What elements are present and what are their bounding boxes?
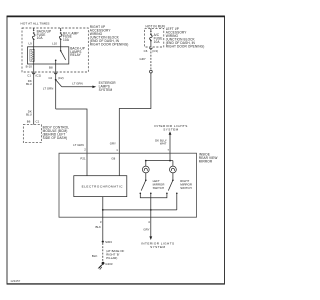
svg-text:C6: C6	[144, 49, 148, 53]
body control module BCM (dashed)	[23, 125, 69, 143]
switch right mirror switch	[166, 179, 192, 194]
svg-text:G8: G8	[111, 156, 115, 160]
svg-text:SWITCH: SWITCH	[180, 186, 192, 190]
lamp right mirror lamp	[170, 161, 177, 180]
svg-text:4: 4	[148, 220, 150, 224]
svg-text:GRY: GRY	[143, 228, 149, 232]
node splice S303	[102, 241, 104, 243]
wire GRY to interior lights system	[141, 217, 175, 249]
svg-text:C1: C1	[36, 120, 40, 124]
svg-text:L10: L10	[52, 41, 57, 45]
svg-text:ELECTROCHROMATIC: ELECTROCHROMATIC	[82, 184, 124, 188]
svg-text:SYSTEM: SYSTEM	[99, 88, 113, 92]
svg-text:HOT AT ALL TIMES: HOT AT ALL TIMES	[21, 22, 50, 26]
inside rear view mirror box	[59, 153, 197, 217]
svg-text:BLU: BLU	[26, 113, 32, 117]
switch left mirror switch	[140, 179, 165, 194]
wire to interior lights output	[150, 193, 152, 217]
svg-text:SIDE OF DASH): SIDE OF DASH)	[43, 136, 68, 140]
wire BLK dashed to ground	[92, 243, 125, 262]
svg-text:10A: 10A	[154, 40, 161, 44]
svg-text:BLK: BLK	[92, 254, 98, 258]
wire DK BLU/WHT to interior lights system	[154, 124, 188, 153]
lamp left mirror lamp	[142, 161, 149, 180]
wire right switch to ground bus	[176, 193, 178, 210]
svg-text:HOT IN RUN: HOT IN RUN	[146, 24, 166, 28]
svg-text:GRY: GRY	[140, 57, 146, 61]
connector C3 under block	[150, 48, 153, 49]
svg-text:LT GRN: LT GRN	[73, 143, 83, 147]
svg-text:WHT: WHT	[160, 141, 167, 145]
svg-text:(C3): (C3)	[152, 49, 158, 53]
svg-text:10A: 10A	[63, 38, 70, 42]
fuse B/U LAMP FUSE 10A	[59, 28, 78, 47]
svg-text:LT GRN: LT GRN	[43, 87, 53, 91]
wire ground bus	[103, 209, 177, 211]
relay coil	[30, 47, 35, 72]
svg-text:BLK: BLK	[95, 225, 101, 229]
svg-text:7: 7	[167, 148, 169, 152]
fuse BACK/UP FUSE 10A	[32, 28, 51, 47]
left I/P accessory wiring junction block (dashed)	[145, 28, 164, 47]
svg-text:S303: S303	[105, 240, 112, 244]
svg-text:1: 1	[116, 148, 118, 152]
svg-text:B-10: B-10	[26, 64, 33, 68]
svg-text:L9: L9	[29, 41, 33, 45]
svg-text:(C2): (C2)	[58, 76, 64, 80]
fuse A/C FUSE 10A	[150, 28, 163, 47]
wire GRY from A/C fuse	[110, 48, 153, 175]
node splice to exterior lamps	[55, 79, 57, 81]
ground G303	[98, 262, 113, 270]
wire branch LT GRN to exterior lamps	[56, 80, 117, 92]
wire LT GRN to mirror	[56, 109, 87, 176]
svg-text:RIGHT DOOR OPENING): RIGHT DOOR OPENING)	[166, 44, 205, 48]
wire BLK to ground	[95, 217, 102, 240]
svg-text:RELAY: RELAY	[70, 53, 81, 57]
svg-text:LT GRN: LT GRN	[72, 82, 82, 86]
connector C1 at junction block	[32, 73, 35, 74]
electrochromatic unit U1	[74, 176, 127, 197]
wire DK BLU to BCM	[26, 72, 39, 125]
svg-text:SYSTEM: SYSTEM	[163, 127, 178, 131]
svg-text:P21: P21	[80, 156, 86, 160]
relay contact	[55, 47, 66, 72]
svg-text:RIGHT DOOR OPENING): RIGHT DOOR OPENING)	[90, 42, 129, 46]
wire electrochromatic ground pin	[102, 197, 104, 218]
svg-text:2: 2	[84, 147, 86, 151]
relay BACK-UP LAMPS RELAY	[28, 46, 86, 64]
svg-text:3: 3	[100, 220, 102, 224]
svg-text:MIRROR: MIRROR	[199, 159, 213, 163]
right I/P accessory wiring junction block (dashed)	[22, 28, 88, 72]
svg-text:C1: C1	[27, 73, 31, 77]
svg-text:G303: G303	[105, 262, 113, 266]
svg-text:BLU: BLU	[26, 82, 32, 86]
svg-text:GRY: GRY	[110, 141, 116, 145]
connector C2 at junction block	[54, 73, 57, 74]
svg-text:PILLAR): PILLAR)	[106, 256, 117, 260]
wire lamp feed bus	[145, 153, 173, 161]
svg-text:10A: 10A	[37, 36, 44, 40]
svg-text:C2: C2	[48, 76, 52, 80]
svg-text:(C1): (C1)	[36, 73, 42, 77]
wire LT GRN from relay contact	[43, 72, 56, 109]
svg-text:123457: 123457	[10, 279, 20, 283]
svg-text:B8: B8	[49, 65, 53, 69]
wire switch common bus	[140, 193, 167, 198]
page border frame	[7, 16, 225, 283]
svg-text:SYSTEM: SYSTEM	[150, 245, 165, 249]
svg-text:B6: B6	[27, 120, 31, 124]
svg-text:SWITCH: SWITCH	[153, 186, 165, 190]
